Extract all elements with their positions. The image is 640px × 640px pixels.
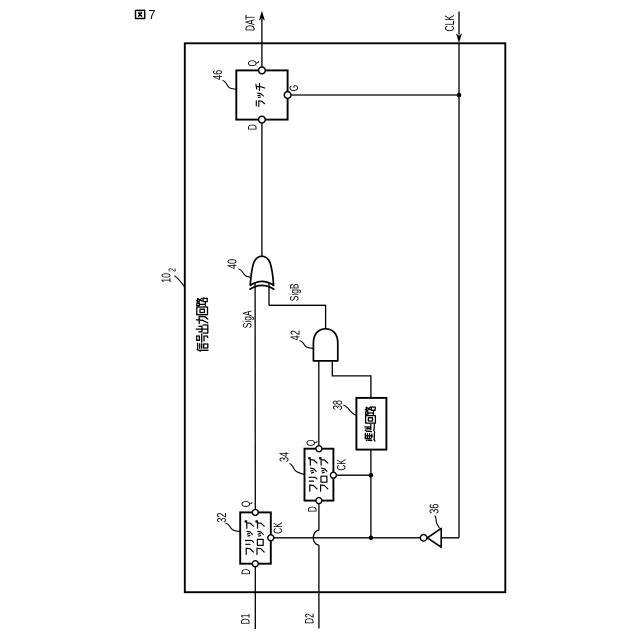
- junction dot on CK bus: [369, 536, 374, 541]
- arrow CLK down: [456, 33, 462, 43]
- pin Q circle FF32: [252, 509, 258, 515]
- wire delay circuit bottom down to CK bus: [370, 450, 372, 538]
- svg-text:Q: Q: [247, 60, 260, 67]
- leader 38: [343, 405, 356, 415]
- delay text 遅延回路: [365, 407, 376, 441]
- svg-text:40: 40: [226, 259, 240, 269]
- svg-text:32: 32: [216, 513, 230, 523]
- pin CK circle FF34: [330, 472, 336, 478]
- latch U46 box: [236, 70, 287, 119]
- flip-flop U34 box: [305, 449, 334, 501]
- wire XOR right input down: [268, 284, 270, 306]
- leader 40: [239, 269, 251, 277]
- outer block border 10_2: [185, 43, 506, 592]
- svg-text:SigA: SigA: [242, 310, 255, 328]
- delay circuit U38 box: [356, 398, 386, 450]
- xor gate U40 input arc: [249, 285, 274, 289]
- svg-text:34: 34: [278, 452, 292, 462]
- svg-text:7: 7: [149, 8, 156, 22]
- xor gate U40 body: [250, 256, 273, 285]
- wire CLK input shaft: [458, 12, 460, 35]
- svg-text:D: D: [247, 124, 260, 130]
- pin D circle FF32: [252, 561, 258, 567]
- junction dot FF34 CK: [369, 473, 374, 478]
- svg-text:CK: CK: [273, 522, 286, 534]
- leader 32: [226, 523, 241, 532]
- wire DAT output (latch Q up through border): [261, 19, 263, 67]
- wire inverter output to FF32 CK (horizontal bus): [274, 537, 420, 539]
- pin Q circle latch: [259, 67, 266, 74]
- pin G circle latch: [284, 92, 291, 99]
- block label 信号出力回路: [196, 298, 208, 351]
- svg-text:2: 2: [166, 268, 178, 272]
- figure caption 図7: [136, 10, 145, 18]
- wire SigA : FF32 Q up to XOR left input: [254, 284, 256, 510]
- FF34 text フリップ: [309, 458, 317, 492]
- wire hop crossover: [313, 530, 319, 545]
- leader 36: [435, 516, 440, 529]
- FF32 text フリップ: [245, 521, 253, 555]
- svg-text:46: 46: [211, 70, 225, 80]
- junction dot G/CLK: [457, 93, 462, 98]
- svg-text:CLK: CLK: [444, 15, 458, 32]
- wire D1 input up to FF32 D: [254, 567, 256, 629]
- wire AND left input to FF34 Q: [318, 361, 320, 446]
- wire D2 input up to FF34 D (with hop over CK bus): [318, 504, 320, 531]
- svg-text:Q: Q: [306, 440, 319, 447]
- wire CLK to inverter input: [441, 537, 459, 539]
- wire latch G to CLK line: [291, 94, 459, 96]
- svg-text:36: 36: [428, 504, 442, 514]
- leader 46: [223, 81, 237, 90]
- pin CK circle FF32: [268, 535, 274, 541]
- wire CLK vertical inside block: [458, 43, 460, 538]
- svg-text:D2: D2: [304, 613, 317, 624]
- pin D circle FF34: [316, 498, 322, 504]
- inverter U36 triangle: [427, 528, 441, 547]
- svg-text:42: 42: [289, 330, 303, 340]
- svg-text:G: G: [289, 85, 302, 92]
- wire FF34 CK to vertical: [337, 474, 371, 476]
- latch text ラッチ: [256, 84, 265, 107]
- inverter U36 bubble: [420, 535, 427, 542]
- leader 34: [290, 464, 305, 475]
- FF34 text フロップ: [320, 458, 328, 492]
- svg-text:D: D: [241, 569, 254, 575]
- svg-text:D1: D1: [240, 613, 253, 624]
- and gate U42 body: [313, 329, 337, 361]
- arrow DAT up: [259, 11, 265, 21]
- svg-text:SigB: SigB: [289, 283, 302, 301]
- svg-text:10: 10: [160, 273, 174, 283]
- FF32 text フロップ: [256, 521, 264, 555]
- leader 10_2: [174, 276, 185, 288]
- leader 42: [300, 341, 314, 349]
- flip-flop U32 box: [240, 512, 271, 563]
- pin Q circle FF34: [316, 446, 322, 452]
- svg-text:DAT: DAT: [244, 14, 258, 31]
- wire SigB horizontal + AND output stem: [269, 305, 326, 329]
- svg-text:D: D: [307, 506, 320, 512]
- pin D circle latch: [259, 116, 266, 123]
- wire AND right input to delay circuit top: [332, 361, 371, 399]
- svg-text:CK: CK: [336, 459, 349, 471]
- wire latch D to XOR output: [261, 123, 263, 257]
- svg-text:Q: Q: [241, 501, 254, 508]
